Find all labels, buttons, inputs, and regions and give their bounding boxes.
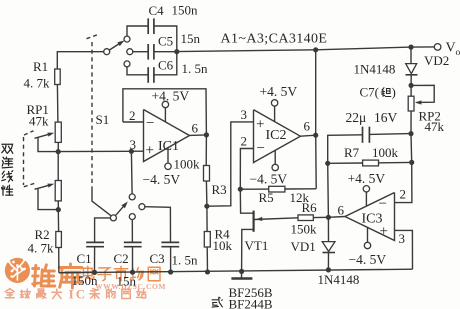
S1 deck2 arm bbox=[116, 202, 128, 216]
svg-text:100k: 100k bbox=[174, 157, 201, 172]
label BF244B bbox=[229, 297, 273, 309]
wire C7 node to node G bbox=[410, 134, 413, 163]
svg-text:VT1: VT1 bbox=[245, 238, 269, 253]
label R6 bbox=[302, 200, 318, 215]
wire node E to IC3 output bbox=[328, 216, 345, 219]
wire IC2 out down to R5 bbox=[315, 135, 318, 189]
svg-text:VD1: VD1 bbox=[291, 239, 316, 254]
label C5 bbox=[158, 34, 173, 49]
svg-text:3: 3 bbox=[399, 231, 406, 246]
ground rail bbox=[59, 269, 413, 273]
label VD2 bbox=[424, 53, 449, 68]
wire R3 to node C bbox=[205, 181, 208, 206]
svg-text:+4. 5V: +4. 5V bbox=[348, 171, 386, 186]
IC3 -4.5V label bbox=[349, 252, 387, 267]
junction C1 rail bbox=[92, 270, 97, 275]
op-amp IC3 bbox=[345, 193, 395, 241]
wire VD2 to node H bbox=[410, 75, 412, 86]
RP1b wiper arrow bbox=[35, 184, 55, 190]
IC1 pin6 label bbox=[192, 121, 199, 136]
capacitor C2 bbox=[124, 242, 142, 246]
IC3 pin2 label bbox=[400, 187, 407, 202]
svg-text:C1: C1 bbox=[77, 251, 92, 266]
node D junction (pin2/R5/VT1) bbox=[238, 187, 243, 192]
svg-text:C5: C5 bbox=[158, 34, 173, 49]
svg-text:3: 3 bbox=[130, 137, 137, 152]
potentiometer RP1 bbox=[55, 122, 61, 142]
diode VD1 bbox=[322, 242, 335, 253]
svg-text:2: 2 bbox=[129, 108, 136, 123]
S1 deck2 wiper contact bbox=[129, 194, 135, 200]
svg-text:47k: 47k bbox=[425, 119, 445, 134]
terminal Vo bbox=[434, 44, 441, 51]
vertical text 双连线性 bbox=[2, 144, 13, 195]
op-amp IC2 bbox=[254, 110, 301, 163]
node B junction bbox=[56, 207, 61, 212]
label VT1 bbox=[245, 238, 269, 253]
wire node C to IC2 pin3 bbox=[207, 122, 254, 206]
value C6 1.5n bbox=[182, 61, 209, 76]
node G junction (R7 right) bbox=[409, 160, 414, 165]
wire C2 to ground rail bbox=[132, 247, 134, 273]
node C junction bbox=[204, 204, 209, 209]
junction C2 rail bbox=[130, 270, 135, 275]
IC3 +4.5V label bbox=[348, 171, 386, 186]
wire C5 to bus bbox=[154, 51, 177, 53]
capacitor C4 bbox=[148, 18, 154, 34]
svg-text:−: − bbox=[257, 141, 265, 157]
junction top rail VD2 bbox=[408, 45, 413, 50]
svg-text:2: 2 bbox=[241, 134, 248, 149]
IC1 +4.5V terminal bbox=[162, 101, 168, 122]
label 或 (or) bbox=[212, 297, 222, 307]
IC2 minus sign bbox=[257, 141, 265, 157]
svg-text:3: 3 bbox=[241, 107, 248, 122]
svg-text:C4: C4 bbox=[149, 3, 165, 18]
svg-text:C3: C3 bbox=[150, 251, 165, 266]
value VD1 1N4148 bbox=[318, 272, 360, 287]
wire RP1b wiper to node B bbox=[38, 189, 57, 210]
svg-text:1. 5n: 1. 5n bbox=[182, 61, 209, 76]
junction R4 rail bbox=[205, 269, 210, 274]
IC2 -4.5V label bbox=[250, 172, 288, 187]
wire VD1 to ground rail bbox=[327, 253, 329, 270]
value R4 10k bbox=[213, 238, 233, 253]
op-amp IC1 bbox=[144, 110, 190, 162]
wire C3 to ground rail bbox=[170, 247, 172, 272]
watermark 维库电子市场网 logo bbox=[5, 258, 166, 302]
value C4 150n bbox=[172, 3, 199, 18]
svg-text:−4. 5V: −4. 5V bbox=[250, 172, 288, 187]
svg-text:16V: 16V bbox=[374, 110, 398, 125]
junction IC1 pin3 / S1 deck2 bbox=[129, 149, 134, 154]
svg-text:A1~A3;CA3140E: A1~A3;CA3140E bbox=[221, 32, 328, 47]
value R1 4.7k bbox=[24, 76, 51, 91]
svg-text:S1: S1 bbox=[96, 112, 110, 127]
value RP1 47k bbox=[29, 114, 49, 129]
value VD2 1N4148 bbox=[354, 62, 396, 77]
svg-text:1. 5n: 1. 5n bbox=[172, 253, 199, 268]
wire RP1 bottom bbox=[57, 142, 59, 151]
svg-text:6: 6 bbox=[338, 203, 345, 218]
svg-text:C2: C2 bbox=[114, 251, 129, 266]
IC2 pin3 label bbox=[241, 107, 248, 122]
value C3 1.5n bbox=[172, 253, 199, 268]
wire RP2 to C7 node bbox=[410, 111, 412, 134]
IC1 plus sign bbox=[146, 143, 154, 159]
IC2 pin6 label bbox=[304, 119, 311, 134]
IC1 output wire bbox=[190, 134, 207, 137]
value C2 15n bbox=[117, 274, 137, 289]
label C3 bbox=[150, 251, 165, 266]
svg-text:100k: 100k bbox=[372, 145, 399, 160]
svg-text:47k: 47k bbox=[29, 114, 49, 129]
svg-text:+: + bbox=[146, 143, 154, 159]
resistor R1 bbox=[55, 69, 61, 85]
svg-text:1N4148: 1N4148 bbox=[354, 62, 396, 77]
svg-text:C: C bbox=[76, 287, 85, 302]
IC2 +4.5V terminal bbox=[271, 100, 277, 122]
resistor R2 bbox=[56, 232, 62, 248]
svg-text:+: + bbox=[380, 224, 388, 240]
svg-text:VD2: VD2 bbox=[424, 53, 449, 68]
wire R6 to node E bbox=[313, 216, 328, 218]
label C7(钽) bbox=[360, 85, 396, 100]
wire R1 top to S1 wiper bbox=[57, 52, 103, 69]
svg-text:4. 7k: 4. 7k bbox=[24, 76, 51, 91]
wire node G to IC3 pin2 bbox=[395, 162, 412, 202]
wire node E to VD1 bbox=[327, 217, 329, 241]
svg-text:R5: R5 bbox=[259, 190, 274, 205]
svg-text:150n: 150n bbox=[172, 3, 199, 18]
main top rail bbox=[177, 47, 435, 52]
IC1 pin2 wire bbox=[123, 121, 144, 123]
IC3 pin3 wire bbox=[395, 230, 413, 269]
wire deck2 to C2 bbox=[131, 220, 133, 243]
RP1 wiper arrow bbox=[35, 133, 55, 139]
IC2 pin2 label bbox=[241, 134, 248, 149]
svg-text:o: o bbox=[456, 48, 460, 58]
svg-text:150k: 150k bbox=[291, 222, 318, 237]
wire node F to R7 bbox=[328, 162, 363, 164]
svg-text:2: 2 bbox=[400, 187, 407, 202]
label BF256B bbox=[229, 285, 273, 300]
potentiometer RP1b (second gang) bbox=[55, 181, 61, 201]
node F junction (R7 left/C7) bbox=[325, 161, 330, 166]
svg-text:4. 7k: 4. 7k bbox=[28, 241, 55, 256]
label A1~A3:CA3140E bbox=[221, 32, 328, 47]
wire node D to R5 bbox=[240, 188, 268, 190]
capacitor C3 bbox=[161, 242, 179, 246]
value R2 4.7k bbox=[28, 241, 55, 256]
resistor R6 bbox=[298, 215, 313, 221]
transistor VT1 channel bbox=[253, 211, 255, 232]
S1 dashed linkage bbox=[87, 35, 98, 190]
value RP2 47k bbox=[425, 119, 445, 134]
node A junction bbox=[56, 149, 61, 154]
value R6 150k bbox=[291, 222, 318, 237]
S1 deck2 contact C3 bbox=[139, 204, 145, 210]
resistor R7 bbox=[363, 160, 379, 166]
S1 deck2 contact C1 bbox=[110, 215, 116, 221]
resistor R3 bbox=[204, 166, 210, 182]
junction VD1 rail bbox=[326, 267, 331, 272]
wire node E up to R7 node bbox=[327, 163, 330, 217]
ground symbol bbox=[231, 271, 252, 278]
IC1 -4.5V label bbox=[143, 172, 181, 187]
junction cap bus / main rail bbox=[174, 49, 179, 54]
wire VD2 top bbox=[410, 47, 412, 64]
label R7 100k bbox=[344, 145, 399, 160]
IC3 plus sign bbox=[380, 224, 388, 240]
svg-text:R6: R6 bbox=[302, 200, 318, 215]
IC1 -4.5V terminal bbox=[165, 148, 171, 170]
wire node A to IC1 pin3 bbox=[58, 150, 143, 152]
value C5 15n bbox=[181, 31, 201, 46]
svg-text:R3: R3 bbox=[212, 182, 227, 197]
IC1 feedback wire bbox=[123, 89, 206, 135]
IC2 +4.5V label bbox=[260, 84, 298, 99]
wire node F up to C7 bbox=[328, 135, 363, 164]
junction C3 rail bbox=[168, 269, 173, 274]
wire R7 to node G bbox=[379, 161, 412, 164]
S1 deck1 wiper arm bbox=[109, 40, 124, 50]
IC1 output junction bbox=[204, 132, 209, 137]
node E junction (R6/VD1/IC3 out) bbox=[326, 215, 331, 220]
S1 deck1 contact 3 bbox=[124, 61, 130, 67]
value C7 22µ 16V bbox=[346, 110, 398, 125]
label RP2 bbox=[419, 109, 441, 124]
capacitor C5 bbox=[148, 44, 154, 60]
svg-text:C7(: C7( bbox=[360, 85, 380, 100]
S1 deck1 contact 1 bbox=[124, 36, 130, 42]
wire deck2 to C1 bbox=[95, 218, 111, 242]
label RP1 bbox=[27, 102, 49, 117]
IC1 +4.5V label bbox=[152, 89, 190, 104]
IC1 pin2 label bbox=[129, 108, 136, 123]
svg-text:+: + bbox=[256, 117, 264, 133]
wire IC2 out to top rail bbox=[315, 50, 317, 135]
node H junction (VD2/RP2) bbox=[409, 83, 414, 88]
svg-text:150n: 150n bbox=[72, 273, 99, 288]
IC2 plus sign bbox=[256, 117, 264, 133]
value C1 150n bbox=[72, 273, 99, 288]
wire node A to RP1b bbox=[57, 152, 59, 181]
IC3 label bbox=[362, 212, 383, 227]
label R2 bbox=[35, 227, 50, 242]
junction VT1 source rail bbox=[239, 269, 244, 274]
label C2 bbox=[114, 251, 129, 266]
S1 deck1 wiper contact bbox=[104, 49, 110, 55]
svg-text:C6: C6 bbox=[158, 58, 174, 73]
IC3 pin3 label bbox=[399, 231, 406, 246]
svg-text:15n: 15n bbox=[181, 31, 201, 46]
potentiometer RP2 bbox=[408, 96, 414, 111]
capacitor C1 bbox=[86, 242, 104, 246]
label R1 bbox=[33, 59, 48, 74]
resistor R5 bbox=[269, 186, 285, 192]
wire contact2 to C5 bbox=[133, 51, 148, 53]
svg-text:6: 6 bbox=[304, 119, 311, 134]
IC3 +4.5V terminal bbox=[363, 186, 369, 207]
wire C6 to bus bbox=[154, 52, 177, 75]
svg-text:I: I bbox=[69, 287, 74, 302]
wire node B to R2 bbox=[57, 210, 59, 232]
wire contact3 to C6 bbox=[127, 67, 148, 75]
value R3 100k bbox=[174, 157, 201, 172]
IC3 pin6 label bbox=[338, 203, 345, 218]
svg-text:10k: 10k bbox=[213, 238, 233, 253]
wire R4 to ground rail bbox=[206, 247, 208, 272]
wire RP1 wiper to node A bbox=[38, 138, 57, 152]
IC1 pin3 label bbox=[130, 137, 137, 152]
wire R5 to IC2 out bbox=[285, 188, 316, 190]
label C6 bbox=[158, 58, 174, 73]
wire RP1b bottom bbox=[57, 201, 59, 210]
svg-text:+4. 5V: +4. 5V bbox=[260, 84, 298, 99]
svg-text:−: − bbox=[379, 196, 387, 212]
svg-text:+4. 5V: +4. 5V bbox=[152, 89, 190, 104]
svg-text:22μ: 22μ bbox=[346, 110, 367, 125]
IC2 pin2 wire bbox=[240, 149, 253, 190]
wire C4 to bus bbox=[154, 26, 177, 52]
VT1 source wire bbox=[242, 229, 254, 271]
label R5 12k bbox=[259, 190, 310, 205]
RP2 wiper loop bbox=[411, 85, 434, 104]
svg-text:−4. 5V: −4. 5V bbox=[143, 172, 181, 187]
IC1 label bbox=[158, 139, 179, 154]
svg-text:): ) bbox=[392, 85, 396, 100]
IC2 output junction bbox=[313, 133, 318, 138]
label C1 bbox=[77, 251, 92, 266]
svg-text:−4. 5V: −4. 5V bbox=[349, 252, 387, 267]
svg-text:R1: R1 bbox=[33, 59, 48, 74]
junction C7/RP2 bbox=[408, 131, 413, 136]
capacitor C6 bbox=[148, 67, 154, 83]
svg-text:1N4148: 1N4148 bbox=[318, 272, 360, 287]
wire node C to R4 bbox=[206, 206, 208, 231]
svg-text:IC2: IC2 bbox=[266, 128, 287, 143]
wire deck2 to C3 bbox=[145, 207, 171, 243]
S1 linkage to deck2 bbox=[92, 190, 111, 216]
IC2 -4.5V terminal bbox=[272, 150, 278, 170]
VT1 gate wire bbox=[254, 217, 298, 221]
IC2 label bbox=[266, 128, 287, 143]
capacitor C7 bbox=[363, 127, 370, 143]
svg-text:−: − bbox=[146, 116, 154, 132]
label C4 bbox=[149, 3, 165, 18]
junction top rail IC2 bbox=[313, 47, 318, 52]
IC1 minus sign bbox=[146, 116, 154, 132]
IC3 -4.5V terminal bbox=[364, 227, 370, 249]
diode VD2 bbox=[406, 64, 418, 75]
wire C7 to RP2 node bbox=[369, 133, 411, 136]
wire IC1 pin3 to deck2 wiper bbox=[130, 151, 133, 194]
IC3 minus sign bbox=[379, 196, 387, 212]
svg-text:R7: R7 bbox=[344, 145, 360, 160]
wire IC1 out to R3 bbox=[205, 135, 207, 166]
label Vo bbox=[446, 41, 460, 59]
wire contact1 to C4 bbox=[127, 26, 148, 36]
wire C1 to ground rail bbox=[94, 247, 96, 273]
wire node H to RP2 bbox=[410, 85, 412, 96]
wire R1 to RP1 bbox=[56, 85, 59, 123]
label VD1 bbox=[291, 239, 316, 254]
svg-text:6: 6 bbox=[192, 121, 199, 136]
S1 deck1 contact 2 bbox=[127, 49, 133, 55]
IC2 output wire bbox=[300, 135, 315, 136]
wire R2 to ground rail bbox=[58, 248, 60, 273]
label R4 bbox=[215, 227, 231, 242]
S1 deck2 contact C2 bbox=[129, 214, 135, 220]
label R3 bbox=[212, 182, 227, 197]
VT1 drain wire bbox=[240, 189, 253, 213]
resistor R4 bbox=[204, 232, 210, 248]
svg-text:15n: 15n bbox=[117, 274, 137, 289]
gang coupling dashed line bbox=[24, 131, 36, 187]
svg-text:BF244B: BF244B bbox=[229, 297, 273, 309]
label S1 bbox=[96, 112, 110, 127]
